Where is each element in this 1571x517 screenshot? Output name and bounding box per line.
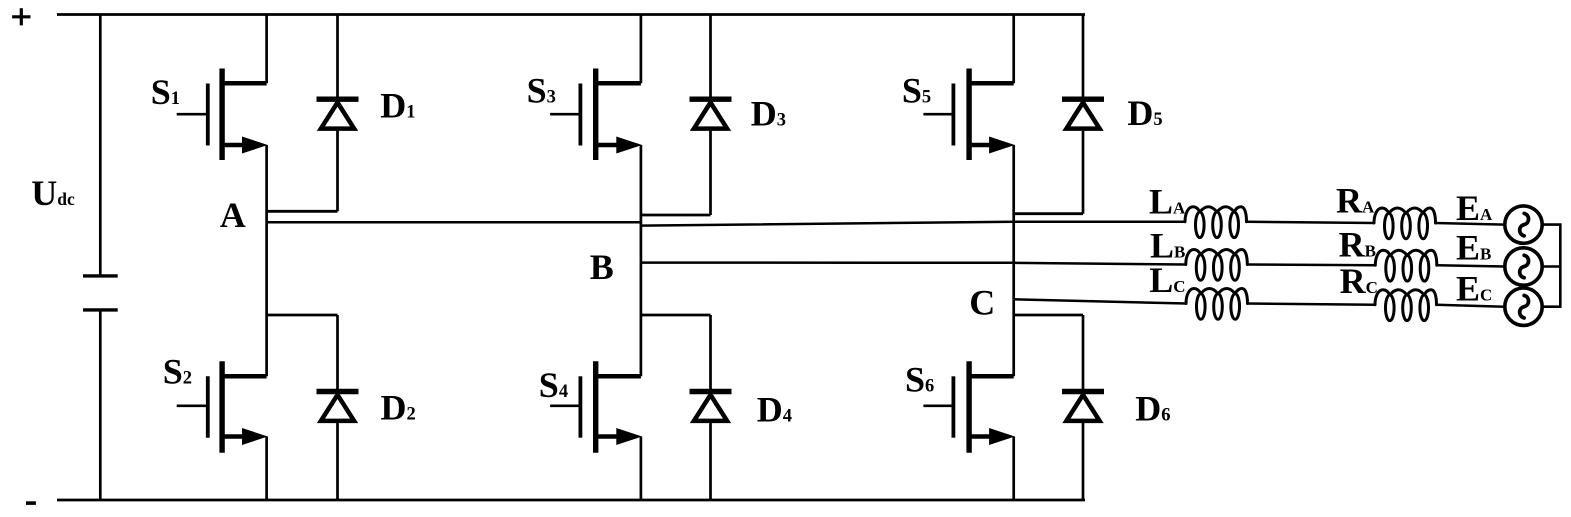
- resistor RC (coil style): [1375, 290, 1437, 321]
- inductor LB: [1186, 249, 1248, 280]
- transistor S5 (upper switch leg C): [923, 15, 1014, 300]
- diode D6 (antiparallel, lower leg C): [1014, 315, 1104, 500]
- diode D5 (antiparallel, upper leg C): [1014, 15, 1104, 214]
- wire LA to RA: [1247, 222, 1375, 223]
- DC source Udc lower plate: [83, 308, 118, 311]
- wire RA to EA: [1436, 223, 1505, 225]
- label - (negative terminal): [26, 501, 36, 505]
- svg-text:C: C: [969, 283, 995, 323]
- inductor LC: [1186, 289, 1248, 320]
- DC source Udc top lead: [99, 15, 102, 275]
- wire bottom DC rail (-): [57, 499, 1085, 502]
- transistor S6 (lower switch leg C): [923, 299, 1014, 500]
- wire RC to EC: [1437, 305, 1505, 307]
- inductor LA: [1185, 207, 1247, 238]
- DC source Udc upper plate: [83, 274, 118, 277]
- wire phase A (node A to LA): [267, 222, 1185, 226]
- wire LC to RC: [1248, 304, 1376, 305]
- wire neutral bus (right): [1542, 225, 1560, 307]
- wire phase B (node B to LB): [641, 263, 1186, 265]
- transistor S1 (upper switch leg A): [177, 15, 268, 223]
- wire RB to EB: [1437, 265, 1505, 266]
- transistor S3 (upper switch leg B): [550, 15, 642, 263]
- AC source EA: [1505, 206, 1542, 243]
- diode D1 (antiparallel, upper leg A): [267, 15, 359, 212]
- diode D4 (antiparallel, lower leg B): [641, 315, 732, 500]
- wire LB to RB: [1247, 263, 1375, 266]
- transistor S2 (lower switch leg A): [177, 222, 268, 500]
- wire phase C (node C to LC): [1014, 299, 1186, 303]
- transistor S4 (lower switch leg B): [550, 263, 642, 500]
- wire top DC rail (+): [57, 13, 1085, 16]
- diode D2 (antiparallel, lower leg A): [267, 315, 359, 500]
- DC source Udc bottom lead: [99, 312, 102, 501]
- label + (positive terminal): [12, 8, 30, 25]
- AC source EC: [1505, 288, 1542, 325]
- resistor RB (coil style): [1375, 250, 1437, 281]
- AC source EB: [1505, 248, 1542, 285]
- resistor RA (coil style): [1374, 208, 1436, 239]
- diode D3 (antiparallel, upper leg B): [641, 15, 732, 216]
- svg-text:B: B: [590, 247, 614, 287]
- svg-text:A: A: [220, 195, 246, 235]
